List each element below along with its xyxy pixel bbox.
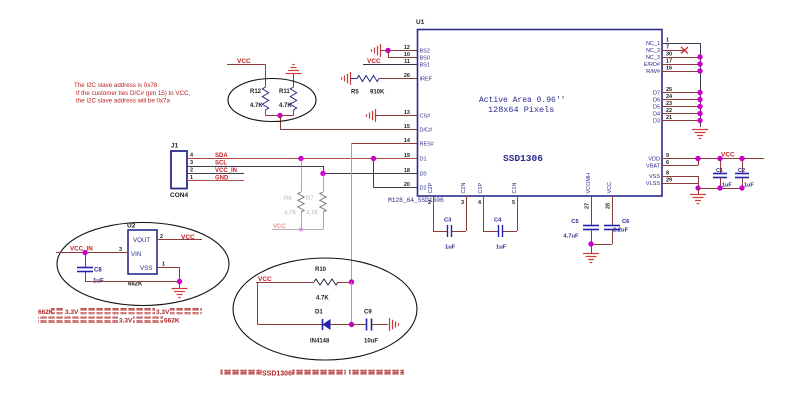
svg-text:D0: D0 — [420, 172, 427, 178]
junction RES#/R10 — [349, 279, 354, 284]
svg-text:4.7K: 4.7K — [306, 211, 318, 217]
capacitor C4 1uF — [483, 196, 518, 251]
resistor R10 4.7K — [314, 267, 352, 302]
svg-text:2: 2 — [190, 168, 193, 174]
ground (VSS rail) — [690, 188, 706, 204]
svg-text:R11: R11 — [279, 89, 290, 95]
pin 24 D6 — [653, 94, 673, 104]
svg-text:VBAT: VBAT — [646, 164, 661, 170]
pin 10 BS0 — [404, 52, 430, 62]
junction VDD/VBAT — [695, 156, 700, 161]
pin 23 D5 — [653, 101, 672, 111]
resistor R11 4.7K — [279, 87, 297, 110]
svg-text:3: 3 — [461, 200, 464, 206]
svg-text:D4: D4 — [653, 112, 660, 118]
svg-text:Active Area 0.96'': Active Area 0.96'' — [479, 96, 565, 105]
svg-text:4.7K: 4.7K — [250, 103, 263, 109]
pin 8 VSS — [649, 171, 669, 181]
pin 4 C1P — [478, 182, 484, 206]
wire D5 to bus — [662, 106, 700, 108]
svg-text:1: 1 — [162, 262, 165, 268]
ground (CS#) — [367, 109, 418, 122]
svg-text:D1: D1 — [420, 157, 427, 163]
svg-text:R6: R6 — [284, 196, 292, 202]
svg-text:VCC: VCC — [258, 276, 272, 283]
svg-text:4.7K: 4.7K — [279, 103, 292, 109]
svg-text:CS#: CS# — [420, 114, 432, 120]
note: regulator annotation line 2 — [38, 317, 180, 325]
svg-text:IN4148: IN4148 — [310, 339, 330, 345]
pin 1 VSS wire — [157, 262, 180, 282]
svg-text:RES#: RES# — [420, 142, 435, 148]
svg-text:M128_64_SSD1306: M128_64_SSD1306 — [388, 197, 444, 204]
wire VLSS — [662, 183, 698, 185]
svg-text:SCL: SCL — [215, 161, 227, 167]
svg-text:VCC: VCC — [181, 234, 195, 241]
pin 21 D3 — [653, 115, 672, 125]
svg-text:D/C#: D/C# — [420, 128, 433, 134]
wire SDA (J1.4 to U1 D1) — [187, 158, 418, 160]
svg-text:R5: R5 — [351, 90, 359, 96]
svg-text:1uF: 1uF — [744, 183, 754, 189]
pin 3 VIN wire — [56, 247, 128, 253]
svg-text:VCC: VCC — [273, 224, 286, 230]
wire BS0 — [388, 51, 418, 58]
svg-text:2: 2 — [160, 234, 163, 240]
svg-text:NC_1: NC_1 — [646, 41, 660, 47]
wire VCC to R12 — [265, 65, 267, 88]
pin 3 C2N — [461, 182, 467, 206]
wire NC_2 with no-connect X — [662, 47, 688, 54]
junction SDA/R6 — [298, 156, 303, 161]
svg-text:the I2C slave address will be: the I2C slave address will be 0x7a — [76, 98, 170, 105]
wire D7 to bus — [662, 92, 700, 94]
pin 22 D4 — [653, 108, 672, 118]
junction bus/D6 — [697, 97, 702, 102]
svg-text:VCC: VCC — [367, 58, 381, 65]
svg-text:13: 13 — [404, 110, 410, 116]
junction C1 bottom — [717, 185, 722, 190]
capacitor C3 1uF — [433, 196, 467, 251]
pin 6 VBAT — [646, 160, 669, 170]
svg-text:4.7K: 4.7K — [316, 296, 329, 302]
pin 13 CS# — [404, 110, 431, 120]
junction R12/R11 to D/C# — [277, 113, 282, 118]
capacitor C1 1uF — [713, 159, 732, 189]
pin 20 D2 — [404, 182, 427, 192]
svg-text:3.3V: 3.3V — [119, 318, 133, 325]
svg-text:VCC_IN: VCC_IN — [215, 168, 237, 174]
svg-text:D1: D1 — [315, 310, 323, 316]
resistor R12 4.7K — [250, 87, 269, 110]
svg-text:E/RD#: E/RD# — [644, 62, 661, 68]
junction RES#/D1/C9 — [349, 322, 354, 327]
pin 15 D/C# — [404, 124, 433, 134]
power VCC (reset) — [256, 276, 314, 283]
svg-text:8: 8 — [666, 171, 669, 177]
resistor R7 4.7K (faded) — [306, 174, 326, 217]
svg-text:3.3V: 3.3V — [65, 309, 79, 316]
svg-text:17: 17 — [666, 59, 672, 65]
wire cap ground rail — [698, 188, 742, 190]
svg-text:1uF: 1uF — [722, 183, 732, 189]
svg-text:C5: C5 — [571, 219, 579, 225]
pin 17 E/RD# — [644, 59, 672, 69]
svg-text:C6: C6 — [622, 219, 630, 225]
svg-text:SSD1306: SSD1306 — [262, 371, 292, 378]
junction bus/D3 — [697, 118, 702, 123]
pin 14 RES# — [404, 138, 435, 148]
ground (C9) — [389, 318, 391, 331]
svg-text:U2: U2 — [127, 223, 136, 230]
wire C5/C6 join — [591, 244, 612, 246]
svg-text:3.3V: 3.3V — [156, 309, 170, 316]
pin 19 D1 — [404, 153, 427, 163]
svg-text:VLSS: VLSS — [646, 181, 660, 187]
svg-text:3: 3 — [190, 160, 193, 166]
ground (C5/C6) — [583, 244, 599, 263]
wire RES# to U1 pin 14 — [352, 143, 418, 145]
power VCC (R12 pull-up) — [227, 58, 266, 65]
wire BS2 — [388, 50, 418, 52]
svg-text:1: 1 — [666, 38, 669, 44]
note: reset annotation — [221, 370, 405, 378]
svg-text:2.2uF: 2.2uF — [613, 228, 629, 234]
pin 25 D7 — [653, 87, 672, 97]
capacitor C5 4.7uF — [563, 196, 599, 244]
svg-text:VCOMH: VCOMH — [586, 173, 592, 194]
ground (NC bus) — [692, 129, 708, 131]
ellipse highlight (address select) — [228, 79, 316, 122]
svg-text:27: 27 — [585, 203, 591, 209]
svg-text:3: 3 — [119, 247, 122, 253]
pin 18 D0 — [404, 168, 427, 178]
diode D1 IN4148 — [258, 310, 352, 345]
ground (above R11) — [286, 65, 302, 88]
svg-text:20: 20 — [404, 182, 410, 188]
svg-text:26: 26 — [404, 73, 410, 79]
wire NC_3 to bus — [662, 57, 700, 59]
capacitor C6 2.2uF — [604, 196, 630, 244]
junction C5 bottom — [588, 241, 593, 246]
svg-text:D3: D3 — [653, 119, 660, 125]
ground (U2) — [172, 282, 188, 298]
svg-text:J1: J1 — [171, 143, 179, 150]
svg-text:BS1: BS1 — [420, 63, 430, 69]
wire SCL to U1 D0 — [323, 173, 418, 175]
wire VSS — [662, 176, 699, 188]
note: regulator annotation line 1 — [38, 308, 202, 316]
resistor R5 910K — [351, 76, 418, 96]
svg-text:VSS: VSS — [649, 174, 660, 180]
svg-text:C8: C8 — [94, 268, 102, 274]
svg-text:10: 10 — [404, 52, 410, 58]
junction C2 bottom — [739, 185, 744, 190]
wire VCC down to diode — [257, 282, 259, 325]
svg-text:SSD1306: SSD1306 — [503, 153, 543, 164]
svg-text:R/W#: R/W# — [646, 69, 661, 75]
junction C1 top — [717, 156, 722, 161]
wire E/RD# to bus — [662, 64, 700, 66]
svg-text:NC_3: NC_3 — [646, 55, 660, 61]
svg-text:NC_2: NC_2 — [646, 48, 660, 54]
junction bus/D5 — [697, 104, 702, 109]
svg-text:11: 11 — [404, 59, 410, 65]
wire RES# net vertical — [351, 144, 353, 282]
capacitor C8 1uF — [77, 253, 104, 285]
svg-text:5: 5 — [512, 200, 515, 206]
ellipse highlight (reset circuit) — [233, 258, 417, 360]
junction bus/E/RD# — [697, 61, 702, 66]
svg-text:1uF: 1uF — [445, 245, 456, 251]
pin 2 VOUT wire — [157, 234, 202, 240]
svg-text:D5: D5 — [653, 105, 660, 111]
wire VDD rail — [662, 158, 764, 160]
svg-text:D6: D6 — [653, 98, 660, 104]
svg-text:C2P: C2P — [428, 182, 434, 193]
svg-text:2: 2 — [428, 200, 431, 206]
svg-text:VCC_IN: VCC_IN — [70, 246, 93, 253]
svg-text:C1P: C1P — [478, 182, 484, 193]
junction bus/D7 — [697, 90, 702, 95]
svg-text:28: 28 — [606, 203, 612, 209]
connector J1 CON4 — [170, 143, 188, 200]
junction D2/D1 — [371, 156, 376, 161]
svg-text:VCC: VCC — [721, 152, 735, 159]
svg-text:The I2C slave address is 0x78.: The I2C slave address is 0x78. — [74, 82, 159, 89]
power VCC (BS1) — [363, 58, 418, 65]
svg-text:VOUT: VOUT — [133, 237, 150, 244]
svg-text:VDD: VDD — [648, 157, 660, 163]
ground (BS2/BS0) — [372, 44, 389, 57]
wire D4 to bus — [662, 113, 700, 115]
pin 2 C2P — [428, 182, 434, 206]
pin 9 VDD — [648, 153, 669, 163]
svg-text:C3: C3 — [444, 218, 452, 224]
ellipse highlight (regulator) — [57, 223, 229, 306]
svg-text:D7: D7 — [653, 91, 660, 97]
op IC U1 SSD1306 body — [416, 19, 662, 196]
resistor R6 4.7K (faded) — [284, 159, 304, 217]
svg-text:C2N: C2N — [461, 182, 467, 193]
regulator U2 body 662K — [127, 223, 157, 288]
junction bus/D4 — [697, 111, 702, 116]
svg-text:C9: C9 — [364, 310, 372, 316]
wire R12/R11 bottoms join — [266, 110, 294, 116]
wire GND stub — [187, 180, 244, 182]
svg-text:VSS: VSS — [140, 265, 152, 272]
wire D6 to bus — [662, 99, 700, 101]
power VCC (R6/R7 pull-up rail, faded) — [272, 212, 324, 232]
svg-text:128x64 Pixels: 128x64 Pixels — [488, 105, 554, 115]
pin 30 NC_3 — [646, 52, 672, 62]
svg-text:10uF: 10uF — [364, 339, 378, 345]
junction bus/NC_3 — [697, 54, 702, 59]
svg-text:C4: C4 — [494, 218, 502, 224]
svg-text:4.7K: 4.7K — [284, 211, 296, 217]
svg-text:C2: C2 — [738, 168, 745, 174]
svg-text:30: 30 — [666, 52, 672, 58]
svg-text:1uF: 1uF — [496, 245, 507, 251]
junction bus/R/W# — [697, 68, 702, 73]
svg-text:U1: U1 — [416, 19, 425, 26]
wire C8 to VSS ground — [85, 281, 180, 283]
capacitor C2 1uF — [735, 159, 754, 189]
svg-text:662K: 662K — [128, 282, 143, 288]
svg-text:C1N: C1N — [512, 182, 518, 193]
svg-text:BS0: BS0 — [420, 56, 430, 62]
pin 1 NC_1 — [646, 38, 669, 48]
ground (R5) — [350, 72, 352, 85]
pin 11 BS1 — [404, 59, 430, 69]
junction SCL/R7 — [320, 171, 325, 176]
pin 28 VCC — [606, 182, 613, 209]
wire U1 D2 tied to D1 (SDA) — [374, 159, 418, 188]
junction U2 VSS — [177, 279, 182, 284]
svg-text:662K: 662K — [164, 318, 180, 325]
pin 5 C1N — [512, 182, 518, 206]
svg-text:15: 15 — [404, 124, 410, 130]
svg-text:VCC: VCC — [237, 58, 251, 65]
wire VBAT join — [662, 159, 699, 166]
note: I2C address annotation — [74, 82, 190, 105]
capacitor C9 10uF — [352, 310, 389, 345]
pin 16 R/W# — [646, 66, 672, 76]
svg-text:If the customer ties D/C# (pin: If the customer ties D/C# (pin 15) to VC… — [76, 90, 190, 97]
svg-text:IREF: IREF — [420, 77, 433, 83]
svg-text:19: 19 — [404, 153, 410, 159]
svg-text:18: 18 — [404, 168, 410, 174]
svg-text:910K: 910K — [370, 90, 385, 96]
svg-text:16: 16 — [666, 66, 672, 72]
pin 12 BS2 — [404, 45, 430, 55]
junction VIN/C8 — [82, 250, 87, 255]
svg-text:BS2: BS2 — [420, 49, 430, 55]
svg-text:7: 7 — [666, 45, 669, 51]
wire VCC_IN stub — [187, 173, 244, 175]
junction C2 top — [739, 156, 744, 161]
wire junction down to D/C# line — [280, 116, 418, 130]
junction VSS rail — [695, 185, 700, 190]
svg-text:CON4: CON4 — [170, 192, 188, 199]
wire RES# node down — [351, 282, 353, 325]
pin 27 VCOMH — [585, 173, 592, 209]
svg-text:29: 29 — [666, 178, 672, 184]
svg-text:R12: R12 — [250, 89, 262, 95]
pin 7 NC_2 — [646, 45, 669, 55]
svg-text:SDA: SDA — [215, 153, 228, 159]
svg-text:VCC: VCC — [607, 182, 613, 194]
svg-text:4.7uF: 4.7uF — [563, 234, 579, 240]
wire R/W# to bus — [662, 71, 700, 73]
svg-text:GND: GND — [215, 176, 229, 182]
svg-text:R10: R10 — [315, 267, 327, 273]
wire NC_1 — [662, 43, 701, 127]
wire D3 to bus — [662, 120, 700, 122]
svg-text:C1: C1 — [716, 168, 723, 174]
pin 26 IREF — [404, 73, 433, 83]
svg-text:VIN: VIN — [131, 251, 141, 258]
pin 29 VLSS — [646, 178, 672, 188]
svg-text:D2: D2 — [420, 186, 427, 192]
svg-text:14: 14 — [404, 138, 411, 144]
junction BS2/BS0 — [385, 48, 390, 53]
svg-text:12: 12 — [404, 45, 410, 51]
svg-text:R7: R7 — [306, 196, 314, 202]
wire SCL (J1.3) — [187, 166, 324, 174]
